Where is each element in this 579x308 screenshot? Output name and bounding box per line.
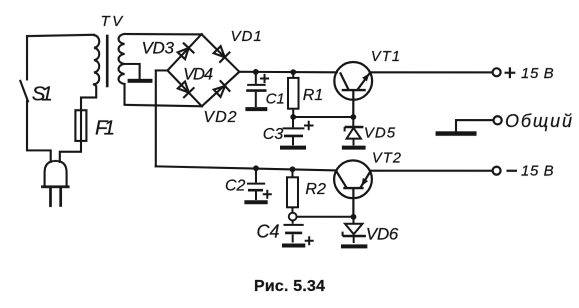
svg-text:Рис. 5.34: Рис. 5.34 (254, 278, 325, 295)
svg-text:C4: C4 (256, 221, 279, 241)
svg-text:C3: C3 (263, 126, 284, 143)
svg-text:S1: S1 (32, 82, 53, 105)
svg-text:TV: TV (101, 13, 125, 30)
svg-text:VD6: VD6 (366, 224, 399, 243)
svg-text:VT1: VT1 (371, 49, 401, 65)
svg-text:C2: C2 (225, 177, 246, 194)
svg-text:F1: F1 (95, 116, 115, 139)
svg-text:15 В: 15 В (521, 162, 554, 179)
svg-text:Общий: Общий (505, 111, 572, 131)
svg-text:R1: R1 (303, 87, 323, 104)
svg-text:VD5: VD5 (364, 125, 396, 142)
svg-text:VT2: VT2 (372, 151, 402, 167)
svg-text:VD2: VD2 (203, 109, 237, 126)
svg-text:VD4: VD4 (183, 65, 213, 83)
svg-text:VD3: VD3 (142, 38, 175, 57)
svg-text:C1: C1 (266, 90, 285, 107)
svg-text:15 В: 15 В (521, 65, 554, 82)
svg-text:VD1: VD1 (231, 28, 263, 45)
svg-text:R2: R2 (305, 181, 326, 198)
